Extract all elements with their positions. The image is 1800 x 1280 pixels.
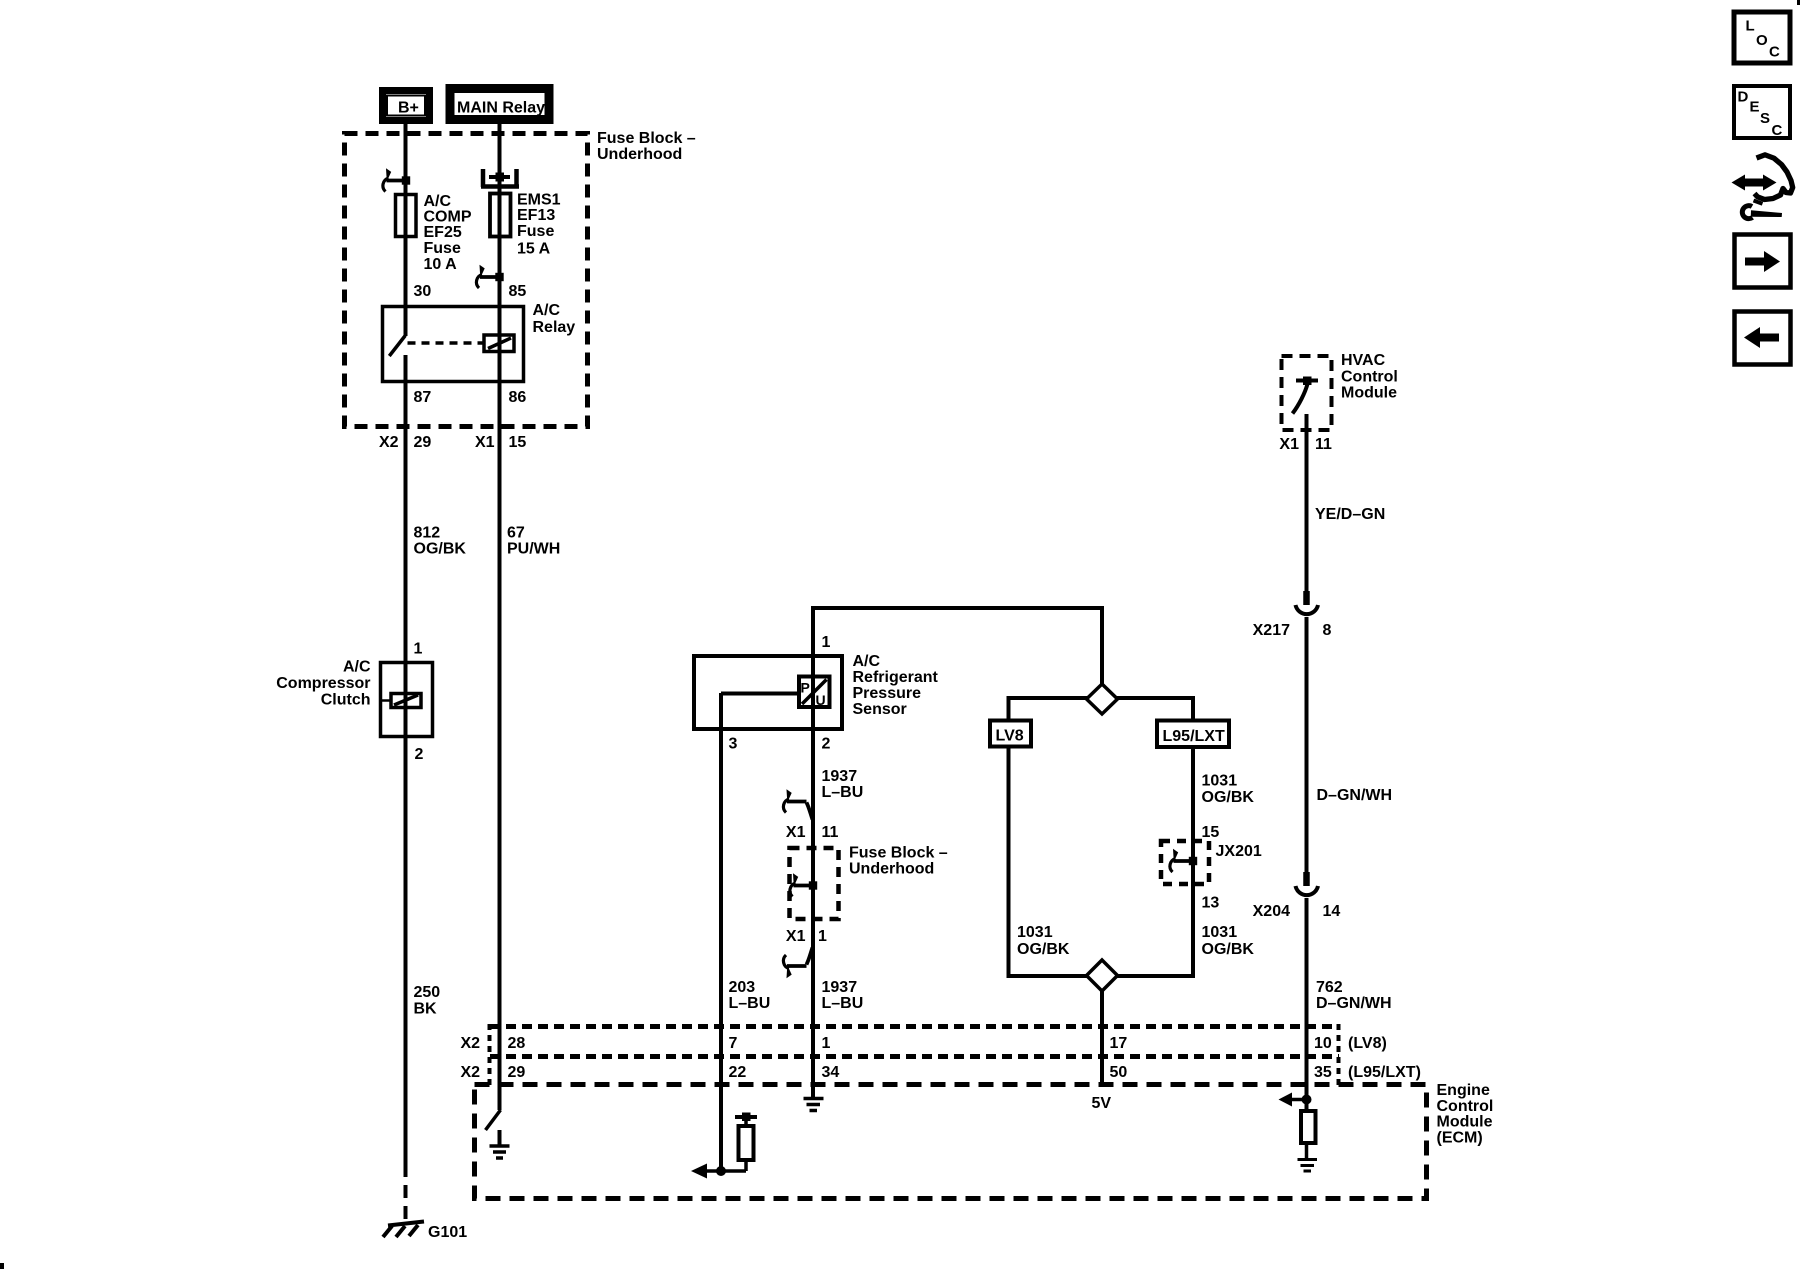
- svg-text:L–BU: L–BU: [822, 995, 864, 1012]
- svg-text:A/C: A/C: [853, 653, 881, 670]
- svg-text:29: 29: [508, 1064, 526, 1081]
- svg-text:1031: 1031: [1202, 924, 1238, 941]
- svg-text:29: 29: [414, 434, 432, 451]
- svg-text:85: 85: [509, 283, 527, 300]
- svg-text:Fuse Block –: Fuse Block –: [849, 845, 948, 862]
- svg-text:L95/LXT: L95/LXT: [1163, 728, 1225, 745]
- svg-text:Underhood: Underhood: [597, 146, 682, 163]
- svg-text:1: 1: [818, 928, 827, 945]
- svg-text:X2: X2: [461, 1064, 481, 1081]
- svg-text:10 A: 10 A: [424, 256, 458, 273]
- svg-text:28: 28: [508, 1035, 526, 1052]
- svg-text:Engine: Engine: [1437, 1082, 1490, 1099]
- svg-text:Refrigerant: Refrigerant: [853, 669, 939, 686]
- svg-text:15 A: 15 A: [517, 241, 551, 258]
- svg-text:1: 1: [822, 634, 831, 651]
- svg-text:HVAC: HVAC: [1341, 352, 1386, 369]
- svg-text:35: 35: [1314, 1064, 1332, 1081]
- svg-text:Fuse: Fuse: [517, 223, 554, 240]
- svg-text:1: 1: [414, 641, 423, 658]
- svg-text:2: 2: [822, 736, 831, 753]
- svg-text:15: 15: [509, 434, 527, 451]
- svg-text:MAIN Relay: MAIN Relay: [457, 100, 545, 117]
- svg-text:Control: Control: [1341, 369, 1398, 386]
- svg-text:1031: 1031: [1017, 924, 1053, 941]
- svg-text:1937: 1937: [822, 979, 858, 996]
- svg-text:EMS1: EMS1: [517, 192, 561, 209]
- svg-text:P: P: [801, 680, 810, 696]
- svg-text:X204: X204: [1253, 903, 1290, 920]
- svg-text:D–GN/WH: D–GN/WH: [1316, 995, 1392, 1012]
- svg-text:10: 10: [1314, 1035, 1332, 1052]
- svg-text:7: 7: [729, 1035, 738, 1052]
- svg-text:B+: B+: [398, 100, 419, 117]
- svg-text:L: L: [1746, 18, 1755, 35]
- svg-text:A/C: A/C: [424, 193, 452, 210]
- svg-text:D: D: [1738, 89, 1749, 106]
- svg-text:X1: X1: [1279, 436, 1299, 453]
- svg-text:Sensor: Sensor: [853, 701, 907, 718]
- svg-text:11: 11: [822, 824, 839, 841]
- svg-text:(LV8): (LV8): [1348, 1035, 1387, 1052]
- svg-text:34: 34: [822, 1064, 840, 1081]
- svg-text:L–BU: L–BU: [822, 784, 864, 801]
- svg-text:13: 13: [1202, 895, 1220, 912]
- svg-text:OG/BK: OG/BK: [1017, 941, 1070, 958]
- svg-text:OG/BK: OG/BK: [414, 541, 467, 558]
- svg-text:X1: X1: [786, 824, 806, 841]
- svg-text:67: 67: [507, 525, 525, 542]
- svg-text:L–BU: L–BU: [729, 995, 771, 1012]
- svg-text:203: 203: [729, 979, 756, 996]
- svg-text:30: 30: [414, 283, 432, 300]
- svg-text:3: 3: [729, 736, 738, 753]
- svg-text:Relay: Relay: [533, 319, 576, 336]
- svg-text:X217: X217: [1253, 622, 1290, 639]
- svg-text:A/C: A/C: [533, 302, 561, 319]
- svg-text:COMP: COMP: [424, 209, 472, 226]
- svg-text:G101: G101: [428, 1224, 467, 1241]
- svg-text:LV8: LV8: [996, 728, 1024, 745]
- svg-text:X2: X2: [379, 434, 399, 451]
- svg-text:1937: 1937: [822, 768, 858, 785]
- svg-text:Control: Control: [1437, 1098, 1494, 1115]
- svg-text:8: 8: [1323, 622, 1332, 639]
- svg-text:A/C: A/C: [343, 659, 371, 676]
- svg-text:BK: BK: [414, 1001, 438, 1018]
- svg-text:YE/D–GN: YE/D–GN: [1315, 506, 1385, 523]
- svg-text:250: 250: [414, 984, 441, 1001]
- svg-text:812: 812: [414, 525, 441, 542]
- svg-text:X2: X2: [461, 1035, 481, 1052]
- svg-text:EF13: EF13: [517, 207, 555, 224]
- svg-text:1031: 1031: [1202, 773, 1238, 790]
- svg-text:X1: X1: [786, 928, 806, 945]
- svg-text:14: 14: [1323, 903, 1341, 920]
- svg-text:U: U: [816, 692, 826, 708]
- svg-text:JX201: JX201: [1216, 843, 1262, 860]
- svg-text:Module: Module: [1341, 385, 1397, 402]
- svg-text:E: E: [1750, 99, 1760, 116]
- svg-text:Clutch: Clutch: [321, 692, 371, 709]
- svg-text:17: 17: [1110, 1035, 1128, 1052]
- svg-text:OG/BK: OG/BK: [1202, 941, 1255, 958]
- svg-text:Fuse Block –: Fuse Block –: [597, 130, 696, 147]
- svg-text:50: 50: [1110, 1064, 1128, 1081]
- svg-text:O: O: [1756, 32, 1768, 49]
- svg-text:22: 22: [729, 1064, 747, 1081]
- svg-text:15: 15: [1202, 824, 1220, 841]
- svg-text:C: C: [1769, 44, 1780, 61]
- svg-text:762: 762: [1316, 979, 1343, 996]
- svg-text:Underhood: Underhood: [849, 861, 934, 878]
- svg-text:(ECM): (ECM): [1437, 1130, 1483, 1147]
- svg-text:X1: X1: [475, 434, 495, 451]
- svg-text:OG/BK: OG/BK: [1202, 789, 1255, 806]
- svg-text:EF25: EF25: [424, 224, 462, 241]
- svg-text:(L95/LXT): (L95/LXT): [1348, 1064, 1421, 1081]
- svg-text:2: 2: [415, 746, 424, 763]
- svg-text:5V: 5V: [1092, 1095, 1112, 1112]
- svg-text:11: 11: [1315, 436, 1332, 453]
- svg-text:Pressure: Pressure: [853, 685, 922, 702]
- svg-text:Fuse: Fuse: [424, 240, 461, 257]
- svg-text:Module: Module: [1437, 1114, 1493, 1131]
- svg-text:PU/WH: PU/WH: [507, 541, 560, 558]
- svg-text:C: C: [1772, 122, 1783, 139]
- svg-text:87: 87: [414, 389, 432, 406]
- svg-text:D–GN/WH: D–GN/WH: [1317, 787, 1393, 804]
- svg-text:Compressor: Compressor: [276, 675, 370, 692]
- svg-text:86: 86: [509, 389, 527, 406]
- svg-text:S: S: [1760, 110, 1770, 127]
- svg-text:1: 1: [822, 1035, 831, 1052]
